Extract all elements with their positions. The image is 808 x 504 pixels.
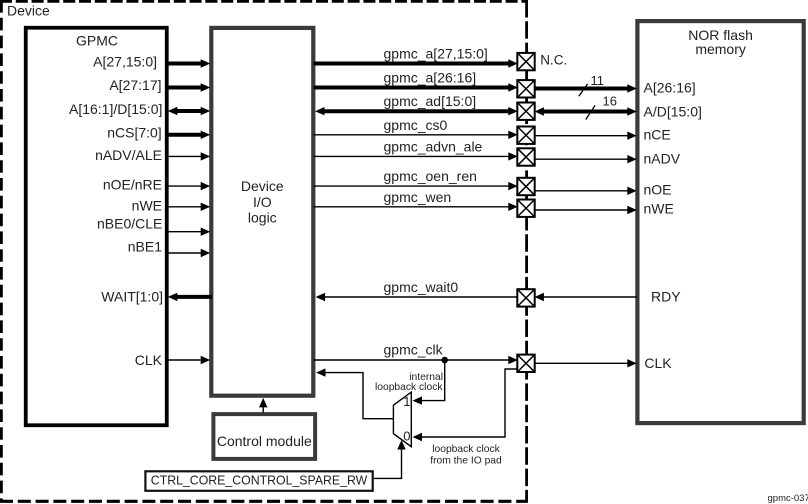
device dashed boundary left	[0, 0, 3, 502]
svg-text:gpmc_ad[15:0]: gpmc_ad[15:0]	[384, 93, 477, 109]
Device I/O logic block U1	[211, 28, 313, 396]
svg-text:gpmc-037: gpmc-037	[768, 493, 808, 504]
wire gpmc_wen IO to pad	[314, 203, 518, 211]
svg-text:WAIT[1:0]: WAIT[1:0]	[101, 289, 163, 305]
svg-text:gpmc_a[27,15:0]: gpmc_a[27,15:0]	[384, 46, 488, 62]
wire gpmc_clk IO to pad	[314, 356, 518, 364]
wire nCS[7:0] GPMC to IO	[166, 131, 210, 139]
bus width slash 16	[586, 105, 595, 119]
IO pad gpmc_advn_ale	[517, 148, 534, 165]
wire Control module to IO logic	[259, 398, 267, 413]
svg-text:0: 0	[403, 429, 410, 444]
device dashed boundary right	[525, 0, 528, 502]
wire A[27:17] GPMC to IO	[166, 83, 210, 91]
label NOR flash memory	[688, 27, 753, 57]
wire nADV/ALE GPMC to IO	[166, 152, 210, 160]
svg-text:logic: logic	[248, 210, 277, 226]
IO pad gpmc_oen_ren	[517, 178, 534, 195]
label internal loopback clock	[375, 372, 443, 393]
wire gpmc_wait0 pad to IO	[316, 293, 518, 301]
wire mux output to IO logic	[316, 368, 393, 418]
svg-text:internal: internal	[409, 372, 443, 383]
svg-text:gpmc_a[26:16]: gpmc_a[26:16]	[384, 70, 477, 86]
svg-text:loopback clock: loopback clock	[432, 444, 500, 455]
svg-text:GPMC: GPMC	[76, 33, 118, 49]
IO pad gpmc_wen	[517, 200, 534, 217]
svg-text:A/D[15:0]: A/D[15:0]	[644, 104, 702, 120]
svg-text:Device: Device	[241, 178, 284, 194]
svg-text:nOE/nRE: nOE/nRE	[103, 176, 162, 192]
svg-text:A[27,15:0]: A[27,15:0]	[93, 53, 157, 69]
wire gpmc_advn_ale IO to pad	[314, 152, 518, 160]
svg-text:I/O: I/O	[253, 194, 272, 210]
wire CTRL register to mux select	[374, 440, 406, 478]
label loopback clock from the IO pad	[430, 444, 502, 466]
wire pad to nOE	[535, 187, 637, 195]
svg-text:RDY: RDY	[651, 289, 681, 305]
IO pad gpmc_wait0	[517, 289, 534, 306]
svg-text:loopback clock: loopback clock	[375, 382, 443, 393]
IO pad gpmc_a[27,15:0] (N.C.)	[517, 53, 534, 70]
device dashed boundary top	[0, 0, 528, 3]
wire nBE0/CLE GPMC to IO	[166, 228, 210, 236]
svg-text:CLK: CLK	[135, 352, 163, 368]
svg-text:nCE: nCE	[644, 126, 671, 142]
svg-text:CLK: CLK	[644, 355, 672, 371]
svg-text:nADV: nADV	[644, 150, 681, 166]
svg-text:1: 1	[403, 394, 410, 409]
wire loopback clock from IO pad to mux input 0	[413, 369, 518, 441]
svg-text:from the IO pad: from the IO pad	[430, 456, 502, 467]
IO pad gpmc_clk	[517, 355, 534, 372]
CTRL_CORE_CONTROL_SPARE_RW register block	[145, 471, 372, 491]
svg-text:N.C.: N.C.	[540, 52, 567, 67]
wire pad to nADV	[535, 155, 637, 163]
NOR flash memory block	[637, 21, 803, 423]
Control module block	[213, 414, 315, 459]
wire pad to A/D[15:0] bidirectional	[534, 107, 636, 115]
IO pad gpmc_a[26:16]	[517, 80, 534, 97]
svg-text:nBE0/CLE: nBE0/CLE	[97, 215, 162, 231]
wire gpmc_ad[15:0] IO-pad bidirectional	[315, 107, 518, 115]
device dashed boundary bottom	[0, 500, 528, 503]
svg-text:nCS[7:0]: nCS[7:0]	[107, 124, 161, 140]
svg-text:gpmc_advn_ale: gpmc_advn_ale	[384, 139, 483, 155]
svg-text:gpmc_wen: gpmc_wen	[384, 189, 452, 205]
svg-text:nBE1: nBE1	[128, 239, 162, 255]
svg-text:11: 11	[591, 73, 605, 88]
wire WAIT[1:0] IO to GPMC	[168, 293, 212, 301]
svg-text:gpmc_oen_ren: gpmc_oen_ren	[384, 168, 477, 184]
svg-text:gpmc_cs0: gpmc_cs0	[384, 117, 448, 133]
wire nWE GPMC to IO	[166, 203, 210, 211]
svg-text:gpmc_wait0: gpmc_wait0	[384, 279, 459, 295]
wire gpmc_a[27,15:0] IO to pad	[314, 59, 518, 67]
IO pad gpmc_cs0	[517, 127, 534, 144]
wire nBE1 GPMC to IO	[166, 249, 210, 257]
label Device I/O logic	[241, 178, 284, 225]
svg-text:nOE: nOE	[644, 181, 672, 197]
svg-text:nWE: nWE	[132, 197, 162, 213]
IO pad gpmc_ad[15:0]	[517, 103, 534, 120]
svg-text:nADV/ALE: nADV/ALE	[95, 147, 162, 163]
svg-text:Control module: Control module	[217, 433, 312, 449]
bus width slash 11	[579, 84, 588, 96]
wire pad to nWE	[535, 206, 637, 214]
GPMC block	[26, 28, 167, 426]
wire gpmc_cs0 IO to pad	[314, 131, 518, 139]
svg-text:gpmc_clk: gpmc_clk	[384, 342, 444, 358]
wire CLK GPMC to IO	[166, 356, 210, 364]
svg-text:A[27:17]: A[27:17]	[109, 77, 161, 93]
wire gpmc_a[26:16] IO to pad	[314, 83, 518, 91]
wire pad to A[26:16]	[535, 84, 637, 92]
wire pad to nCE	[535, 132, 637, 140]
mux loopback select	[393, 392, 411, 447]
svg-text:16: 16	[603, 94, 617, 109]
svg-text:Device: Device	[7, 3, 50, 19]
wire gpmc_oen_ren IO to pad	[314, 182, 518, 190]
wire A[27,15:0] GPMC to IO	[166, 59, 210, 67]
junction dot on gpmc_clk	[441, 357, 448, 364]
svg-text:A[16:1]/D[15:0]: A[16:1]/D[15:0]	[69, 101, 162, 117]
wire pad to CLK (NOR)	[535, 359, 637, 367]
svg-text:A[26:16]: A[26:16]	[644, 80, 696, 96]
wire internal loopback branch to mux input 1	[413, 360, 446, 405]
svg-text:memory: memory	[695, 41, 746, 57]
wire nOE/nRE GPMC to IO	[166, 182, 210, 190]
svg-text:CTRL_CORE_CONTROL_SPARE_RW: CTRL_CORE_CONTROL_SPARE_RW	[151, 474, 368, 488]
wire RDY to pad	[534, 293, 637, 301]
svg-text:nWE: nWE	[644, 201, 674, 217]
wire A[16:1]/D[15:0] GPMC-IO bidirectional	[168, 107, 210, 115]
